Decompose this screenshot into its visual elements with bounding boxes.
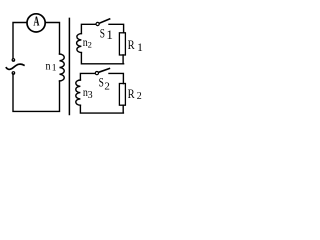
svg-text:S: S	[100, 26, 105, 40]
svg-text:A: A	[33, 15, 40, 30]
svg-text:R: R	[128, 37, 135, 52]
svg-text:n: n	[46, 59, 51, 73]
svg-text:S: S	[99, 76, 104, 90]
svg-text:1: 1	[52, 63, 57, 73]
svg-text:1: 1	[106, 27, 113, 42]
svg-text:R: R	[128, 86, 135, 101]
svg-text:2: 2	[104, 81, 110, 93]
svg-text:3: 3	[88, 90, 93, 101]
svg-text:1: 1	[137, 42, 143, 54]
svg-text:2: 2	[137, 91, 142, 102]
svg-text:2: 2	[88, 39, 92, 49]
